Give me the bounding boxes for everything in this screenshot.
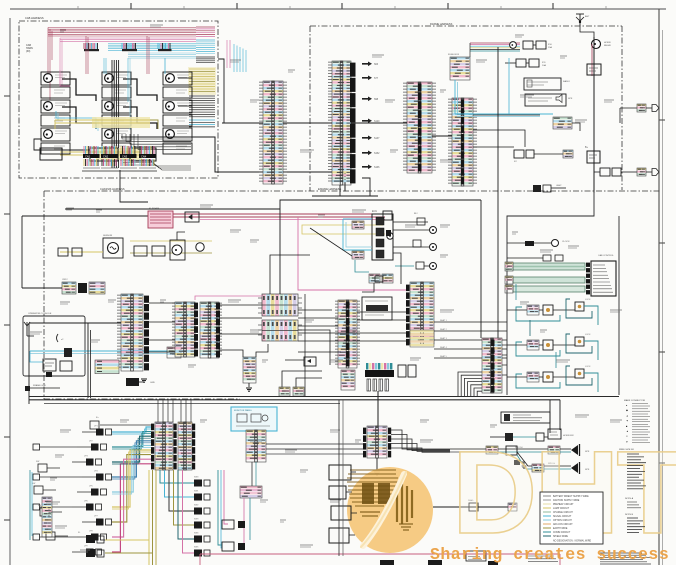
svg-text:EARTH WIRE: EARTH WIRE bbox=[553, 527, 568, 530]
cab harness label bbox=[25, 16, 44, 53]
svg-text:═: ═ bbox=[625, 435, 628, 438]
wire exit cab box bottom bbox=[120, 170, 148, 202]
svg-text:SW: SW bbox=[36, 461, 39, 463]
connector strip G2 bbox=[172, 302, 195, 357]
connector strip SR bbox=[410, 282, 434, 344]
wire SR to boundary bbox=[434, 319, 507, 358]
bus drop right bbox=[559, 400, 561, 430]
wire SR feeds left bbox=[298, 253, 406, 341]
wire SD right bbox=[572, 123, 580, 131]
turn signal return loop yellow bbox=[302, 211, 393, 239]
wire bundle cyan mid risers bbox=[227, 40, 246, 72]
wire G4 risers bbox=[270, 200, 481, 344]
pigtail stack right column bbox=[196, 27, 215, 63]
relay circuit row A bbox=[490, 429, 575, 441]
wire crimson risers bbox=[60, 36, 149, 86]
motor M2 bbox=[102, 72, 131, 98]
svg-text:SIGNAL CIRCUIT: SIGNAL CIRCUIT bbox=[553, 515, 572, 518]
wire cyan radio feed bbox=[455, 58, 553, 117]
wire bus y208 bbox=[22, 209, 280, 216]
bottom center text block bbox=[528, 556, 558, 562]
pigtail stack right column lower bbox=[188, 67, 216, 127]
speaker unit box bbox=[525, 94, 573, 106]
wire BC fan right bbox=[391, 430, 450, 452]
motor M9 bbox=[163, 128, 192, 154]
svg-text:CN12: CN12 bbox=[62, 279, 68, 281]
svg-text:S63: S63 bbox=[374, 64, 379, 66]
svg-text:OPERATOR CONSOLE: OPERATOR CONSOLE bbox=[28, 312, 52, 315]
svg-text:S152: S152 bbox=[374, 153, 380, 155]
connector strip BL mid ladder bbox=[174, 424, 177, 470]
wire vertical bundle below strips bbox=[160, 470, 194, 553]
svg-text:RELAY: RELAY bbox=[604, 44, 612, 47]
svg-text:CLOCK: CLOCK bbox=[562, 241, 570, 243]
console boxes bbox=[43, 359, 72, 377]
door lock circuit 2 bbox=[507, 334, 598, 360]
wire G4 to VC bbox=[298, 318, 341, 352]
svg-text:S98: S98 bbox=[374, 99, 379, 101]
wire horizontal y507 bbox=[433, 499, 517, 511]
wire G4 vertical to bus bbox=[304, 294, 306, 396]
wire SL to SA bbox=[283, 122, 332, 124]
svg-text:IGNITION SUPPLY WIRE: IGNITION SUPPLY WIRE bbox=[553, 500, 580, 502]
door control label box bbox=[591, 261, 616, 296]
svg-text:SHIELD WIRE: SHIELD WIRE bbox=[553, 536, 568, 538]
lamp cluster yellow bbox=[130, 232, 212, 260]
symbol legend column bbox=[624, 399, 650, 443]
connector comb group B1 bbox=[83, 146, 100, 168]
wire gauge table block1 bbox=[627, 454, 646, 489]
motor M3 bbox=[163, 72, 192, 98]
svg-text:Sharing creates success: Sharing creates success bbox=[430, 545, 669, 564]
wire gauge table block2 bbox=[625, 497, 641, 508]
connector strip G3 ladder bbox=[216, 303, 220, 358]
antenna symbol bbox=[576, 14, 590, 26]
wire rainbow fan left bbox=[112, 427, 151, 552]
ground BC bbox=[374, 472, 380, 475]
svg-text:S137: S137 bbox=[374, 138, 380, 140]
svg-text:NOTE A: NOTE A bbox=[625, 497, 634, 500]
svg-text:CHARGE CIRCUIT: CHARGE CIRCUIT bbox=[553, 511, 573, 514]
resistor meter circle bbox=[103, 235, 123, 258]
wire long vertical V497 bbox=[497, 47, 499, 338]
cable terminal ladder bbox=[586, 263, 590, 295]
wire DR stubs bbox=[502, 345, 507, 375]
lamp pair row2 bbox=[533, 184, 566, 192]
connector strip G1 bbox=[117, 294, 143, 371]
left far components bbox=[30, 461, 68, 540]
fan load rows bbox=[33, 426, 112, 556]
wire staircase fan to DR bbox=[458, 372, 482, 396]
connector strip BL2 ladder bbox=[192, 424, 195, 470]
switch row bottom bbox=[40, 148, 156, 161]
svg-text:INJ: INJ bbox=[414, 213, 417, 215]
relay bank RB bbox=[365, 363, 416, 391]
console sub-box bbox=[23, 312, 85, 376]
wire BC to row B bbox=[450, 449, 486, 452]
svg-text:PREHEAT CIRCUIT: PREHEAT CIRCUIT bbox=[553, 503, 574, 506]
motor M6 bbox=[163, 100, 192, 126]
wire verticals into bottom pink box bbox=[339, 400, 343, 556]
connector small pink below monitor bbox=[240, 486, 262, 498]
connector strip SD small bbox=[553, 117, 572, 129]
connector comb group B2 bbox=[101, 146, 118, 168]
svg-text:AIR-CON CIRCUIT: AIR-CON CIRCUIT bbox=[553, 523, 573, 526]
wire fan top row bbox=[90, 417, 151, 429]
wires G1 to G2 bbox=[149, 303, 175, 352]
wire bundle crimson top bbox=[48, 28, 196, 101]
svg-text:S166: S166 bbox=[374, 167, 380, 169]
svg-text:FRAME GND: FRAME GND bbox=[33, 384, 47, 387]
svg-text:COMM CIRCUIT: COMM CIRCUIT bbox=[553, 532, 571, 534]
connector strip under monitor bbox=[246, 430, 266, 462]
connector strip BC bbox=[367, 426, 387, 458]
wire console to G1 bbox=[29, 323, 121, 404]
connector label box bottom bbox=[466, 551, 486, 561]
component block above VC bbox=[362, 297, 392, 320]
svg-text:SEAT 1: SEAT 1 bbox=[440, 319, 448, 322]
svg-text:SW: SW bbox=[32, 483, 35, 485]
wire SL feed bbox=[222, 122, 263, 124]
wire SA bottom drop bbox=[340, 185, 378, 196]
connector strip SB center ladder bbox=[418, 84, 422, 172]
monitor display box bbox=[231, 407, 277, 431]
svg-text:MARK CONNECTOR: MARK CONNECTOR bbox=[624, 399, 645, 402]
diode module bbox=[185, 212, 199, 222]
connector pair mid-left bbox=[62, 279, 105, 294]
wire long vertical V594 bbox=[580, 26, 594, 193]
svg-text:▼: ▼ bbox=[626, 420, 628, 423]
door small comps bbox=[507, 255, 563, 261]
label box LB bbox=[501, 412, 550, 423]
connector strip SA labels bbox=[362, 62, 380, 170]
svg-text:LAMP: LAMP bbox=[556, 184, 562, 187]
wire pink vertical bbox=[224, 470, 228, 524]
svg-text:SEAT 2: SEAT 2 bbox=[440, 328, 448, 331]
svg-text:◄: ◄ bbox=[626, 430, 628, 433]
console end connector bbox=[167, 347, 181, 358]
svg-text:LOCK: LOCK bbox=[585, 366, 591, 368]
motor M8 bbox=[102, 128, 131, 154]
wire SB to SC bbox=[432, 135, 452, 137]
wire SA bottom left return bbox=[312, 178, 370, 196]
connector strip G1 ladder bbox=[144, 296, 149, 371]
cab boundary pink bottom bbox=[200, 554, 560, 565]
wire teal verticals bottom bbox=[218, 470, 222, 548]
bus line third bbox=[44, 403, 340, 405]
svg-text:CN1: CN1 bbox=[85, 154, 91, 158]
horn switch circle bbox=[510, 42, 517, 49]
wire crimson pair to right bbox=[173, 214, 407, 290]
door harness boundary bbox=[507, 191, 619, 395]
bottom right text block bbox=[600, 553, 651, 564]
svg-text:SENSOR: SENSOR bbox=[103, 235, 113, 237]
motor M7 bbox=[41, 128, 70, 154]
engine control box bbox=[372, 210, 393, 260]
svg-text:10A: 10A bbox=[542, 64, 546, 67]
svg-text:SW: SW bbox=[38, 505, 41, 507]
svg-text:NO DESIGNATION : NORMAL WIRE: NO DESIGNATION : NORMAL WIRE bbox=[553, 540, 591, 543]
svg-text:ENGINE HARNESS: ENGINE HARNESS bbox=[318, 187, 341, 191]
console connector dark bbox=[64, 348, 72, 357]
svg-text:FLASHER: FLASHER bbox=[149, 207, 160, 210]
watermark circle logo bbox=[347, 467, 433, 553]
relay box column left of circle bbox=[329, 465, 357, 543]
radio unit box bbox=[524, 78, 570, 90]
ground module mid bbox=[126, 378, 155, 386]
wire loop left of relay bank bbox=[279, 357, 322, 396]
connector strip G3 bbox=[200, 302, 222, 358]
wire olive verticals bbox=[105, 470, 156, 565]
wire black routing bundle bbox=[34, 60, 192, 170]
wire bundle cyan upper bbox=[108, 44, 196, 59]
connector strip BL1 bbox=[155, 422, 173, 470]
wire exit cab box to frame strip bbox=[121, 137, 345, 192]
horn relay circle bbox=[592, 40, 612, 49]
right edge cap connectors bbox=[620, 104, 659, 123]
connector strip SR yellow top bbox=[410, 330, 434, 347]
watermark DHT letters bbox=[452, 427, 676, 559]
bus line lower bbox=[29, 399, 560, 401]
svg-text:CN4: CN4 bbox=[141, 154, 147, 158]
svg-text:LOCK: LOCK bbox=[585, 334, 591, 336]
connector comb group B4 bbox=[139, 146, 156, 168]
wire exit cab box right bbox=[218, 59, 224, 123]
svg-text:HORN: HORN bbox=[604, 42, 611, 44]
frame harness dash-dot boundary bbox=[310, 22, 622, 191]
bottom small loads mid bbox=[222, 520, 245, 551]
connector block console bottom bbox=[95, 360, 119, 374]
svg-text:15A: 15A bbox=[548, 46, 552, 49]
wide cable band 1 bbox=[505, 262, 585, 271]
connector strip SC bbox=[448, 98, 477, 186]
wire G5 drop bbox=[248, 383, 250, 387]
wire cyan console bbox=[30, 351, 168, 362]
relay K2 mid bbox=[514, 150, 573, 163]
wires G3 to G4 bbox=[219, 305, 268, 357]
lamp box L594 bbox=[585, 146, 600, 163]
ground small row C bbox=[514, 460, 526, 469]
door lock circuit 3 bbox=[507, 366, 598, 392]
connector strip DR bbox=[482, 338, 502, 393]
relay box R594 bbox=[587, 64, 601, 75]
svg-text:LOCK: LOCK bbox=[585, 299, 591, 301]
wire from SC to relays bbox=[473, 115, 540, 147]
wide cable band 2 bbox=[505, 276, 585, 284]
wire risers above BL strips bbox=[158, 400, 191, 422]
door lock circuit 1 bbox=[507, 299, 598, 325]
wire cyan risers bbox=[56, 58, 165, 131]
wire bundle dark to pigtails bbox=[122, 134, 191, 149]
wire G4 bottom connectors bbox=[298, 310, 332, 365]
svg-text:ECU: ECU bbox=[372, 210, 377, 213]
svg-text:FRAME HARNESS: FRAME HARNESS bbox=[430, 22, 453, 26]
flasher unit pink box bbox=[148, 207, 173, 228]
relay circuit row B speaker right bbox=[486, 444, 590, 456]
svg-text:CHASSIS HARNESS: CHASSIS HARNESS bbox=[100, 187, 125, 191]
fuse small door bbox=[507, 240, 570, 247]
connector strip BL1 ladder bbox=[151, 424, 154, 470]
wire pink G2 top bbox=[195, 296, 262, 300]
svg-text:GND: GND bbox=[150, 382, 155, 384]
wire VC to SR bbox=[357, 312, 406, 320]
svg-text:ANT: ANT bbox=[585, 15, 590, 18]
wire yellow lower row bbox=[60, 148, 142, 160]
wire bundle fuse to relays bbox=[470, 43, 520, 57]
wire relay bank drop bbox=[377, 391, 379, 426]
connector comb group B3 bbox=[120, 146, 137, 168]
svg-text:S77: S77 bbox=[374, 78, 379, 80]
wire bundle pink bbox=[60, 38, 196, 86]
ground G5 bbox=[246, 388, 252, 391]
bottom tick boxes bbox=[380, 560, 498, 565]
motor M5 bbox=[102, 100, 131, 126]
wire monitor strip to BC bbox=[266, 444, 363, 454]
svg-text:LAMP CIRCUIT: LAMP CIRCUIT bbox=[553, 507, 570, 510]
svg-text:RADIO: RADIO bbox=[563, 80, 570, 83]
svg-text:CN3: CN3 bbox=[122, 154, 128, 158]
svg-text:(30): (30) bbox=[26, 50, 30, 53]
wide cable band 3 bbox=[505, 285, 585, 293]
ground lug bottom left bbox=[25, 384, 60, 391]
svg-text:CAB HARNESS: CAB HARNESS bbox=[25, 16, 44, 20]
connector strip G5 small bbox=[243, 357, 256, 383]
svg-text:CN2: CN2 bbox=[103, 154, 109, 158]
small connector column left bbox=[42, 497, 52, 537]
connector strip SA ladder bbox=[350, 63, 356, 184]
bottom lamp row right bbox=[594, 168, 659, 176]
connector strip SL bbox=[259, 81, 287, 184]
antenna in console bbox=[24, 322, 34, 336]
connector comb J2 bbox=[122, 43, 136, 49]
connector comb J1 bbox=[84, 43, 98, 49]
main dash-dot boundary horizontal bbox=[44, 187, 660, 399]
connector strip SA bbox=[328, 61, 351, 185]
connector strip BC bars bbox=[363, 428, 391, 458]
wire bus drop to relay row bbox=[549, 400, 551, 433]
fuse pair row2 bbox=[505, 59, 546, 67]
bracket symbol bbox=[57, 334, 65, 342]
svg-text:SPK: SPK bbox=[568, 98, 573, 100]
svg-text:FUSE BOX: FUSE BOX bbox=[448, 54, 460, 56]
svg-text:BATTERY DIRECT SUPPLY WIRE: BATTERY DIRECT SUPPLY WIRE bbox=[553, 495, 589, 498]
svg-text:CAB CONTROL: CAB CONTROL bbox=[598, 254, 615, 257]
engine connectors small bbox=[352, 221, 364, 259]
connector strip DR ladder bbox=[491, 340, 495, 393]
motor M1 bbox=[41, 72, 70, 98]
svg-text:SEAT 3: SEAT 3 bbox=[440, 337, 448, 340]
wire cyan engine loop bbox=[343, 219, 372, 272]
svg-text:SEAT 4: SEAT 4 bbox=[440, 346, 448, 349]
wire teal risers door bbox=[516, 284, 556, 368]
wire monitor strip drops bbox=[244, 462, 256, 545]
svg-text:◆: ◆ bbox=[626, 409, 628, 412]
motor M4 bbox=[41, 100, 70, 126]
wire yellow sensor feed bbox=[58, 248, 103, 256]
connector pair below ECU bbox=[362, 274, 393, 292]
relay circuit row C speaker right lower bbox=[506, 446, 590, 474]
wire BC down bbox=[376, 458, 378, 470]
svg-text:MONITOR PANEL: MONITOR PANEL bbox=[234, 409, 253, 412]
sensor circles column bbox=[393, 213, 437, 270]
bottom yellow loads bbox=[78, 532, 104, 557]
wire SA to SB bbox=[351, 122, 407, 124]
wire color legend box bbox=[540, 492, 603, 544]
svg-text:►: ► bbox=[626, 440, 628, 443]
connector strip SB bbox=[403, 82, 436, 173]
svg-text:OPTION CIRCUIT: OPTION CIRCUIT bbox=[553, 520, 572, 522]
bus line upper bbox=[29, 396, 619, 398]
connector strip SC center ladder bbox=[461, 100, 464, 185]
wire gauge table block3 bbox=[625, 514, 645, 533]
wire comb bottom rail bbox=[82, 170, 157, 172]
connector strip G4 multi bbox=[258, 294, 302, 341]
connector strip G2 ladder bbox=[194, 303, 198, 357]
motor row outlines bbox=[0, 0, 1, 1]
connector comb J3 bbox=[158, 43, 170, 49]
fuse block F1 bbox=[448, 54, 470, 80]
fuse pair row1 bbox=[523, 41, 553, 49]
wire vertical V481 to strip bbox=[480, 200, 482, 338]
cab harness dashed boundary box bbox=[19, 21, 218, 178]
connector strip SR ladder bbox=[406, 285, 410, 346]
connector strip VC ladder bbox=[346, 302, 350, 367]
connector strip VC lower bbox=[341, 370, 355, 390]
svg-text:SEAT 5: SEAT 5 bbox=[440, 355, 448, 358]
connector strip BL2 bbox=[178, 422, 192, 470]
svg-text:WIRE SIZE NO: WIRE SIZE NO bbox=[619, 449, 634, 451]
svg-text:NOTE B: NOTE B bbox=[625, 514, 634, 516]
loads below strips bbox=[194, 477, 210, 557]
connector strip VC center bbox=[335, 300, 360, 368]
wire diagonal feed bbox=[310, 228, 352, 256]
svg-text:▲: ▲ bbox=[626, 414, 628, 417]
wire feed connector pair bbox=[22, 287, 62, 289]
wire yellow pair bbox=[55, 117, 158, 129]
